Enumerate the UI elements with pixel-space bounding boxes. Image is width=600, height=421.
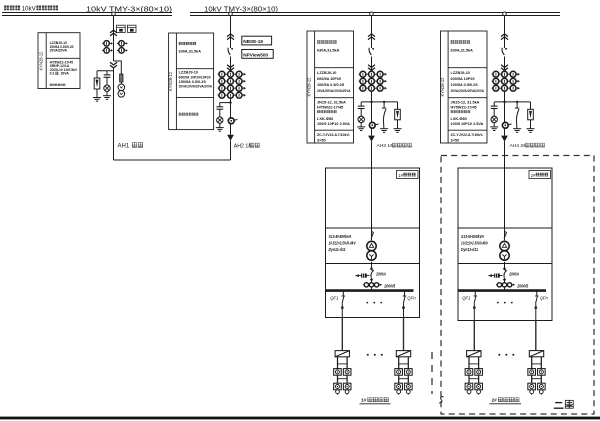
- svg-text:20VA/20VA/20VA/20VA: 20VA/20VA/20VA/20VA: [317, 89, 351, 93]
- svg-text:100/5 10P10 2.5VA: 100/5 10P10 2.5VA: [451, 122, 484, 126]
- svg-text:KYN28-12: KYN28-12: [38, 51, 43, 71]
- svg-text:10.5±2×2.5%/0.4kV: 10.5±2×2.5%/0.4kV: [329, 241, 357, 246]
- svg-text:AH2 1#: AH2 1#: [234, 144, 251, 150]
- svg-text:HY5WZ2-17/45: HY5WZ2-17/45: [317, 106, 343, 110]
- svg-text:10kV TMY-3×(80×10): 10kV TMY-3×(80×10): [204, 4, 278, 13]
- svg-text:LXK-Φ80: LXK-Φ80: [451, 117, 467, 121]
- svg-text:100/5 10P10 2.5VA: 100/5 10P10 2.5VA: [317, 122, 350, 126]
- svg-text:KYN28-12: KYN28-12: [168, 71, 173, 91]
- svg-text:Dyn11-d11: Dyn11-d11: [461, 247, 479, 252]
- svg-text:2000/5: 2000/5: [383, 283, 395, 288]
- svg-text:20VA/20VA: 20VA/20VA: [50, 49, 68, 53]
- svg-text:2#: 2#: [492, 398, 498, 404]
- svg-text:ZC-YJV22-8.7/10kV-: ZC-YJV22-8.7/10kV-: [451, 133, 485, 137]
- svg-text:0.2: 0.2: [50, 72, 55, 76]
- svg-text:NBSE-15: NBSE-15: [243, 39, 263, 44]
- svg-text:10kV TMY-3×(80×10): 10kV TMY-3×(80×10): [86, 4, 173, 13]
- svg-text:JN15-12, 31.5kA: JN15-12, 31.5kA: [317, 100, 346, 104]
- svg-text:S13-M-800kVA: S13-M-800kVA: [329, 234, 352, 239]
- svg-text:20VA/20VA/20VA/20VA: 20VA/20VA/20VA/20VA: [179, 85, 213, 89]
- svg-text:630A,31.5kA: 630A,31.5kA: [317, 49, 340, 53]
- svg-text:1#: 1#: [361, 398, 367, 404]
- svg-text:30VA: 30VA: [61, 72, 70, 76]
- svg-text:600/5A 10P20: 600/5A 10P20: [317, 77, 341, 81]
- svg-text:Dyn11-d11: Dyn11-d11: [329, 247, 347, 252]
- svg-text:630A,31.5kA: 630A,31.5kA: [179, 49, 202, 53]
- svg-text:600/5A 10P20/10P20: 600/5A 10P20/10P20: [179, 75, 211, 79]
- svg-text:LXK-Φ80: LXK-Φ80: [317, 117, 333, 121]
- svg-text:10kV: 10kV: [22, 6, 37, 13]
- svg-text:LZZBJ9-10: LZZBJ9-10: [451, 71, 470, 75]
- svg-text:100/5A 0.5/0.2S: 100/5A 0.5/0.2S: [451, 83, 479, 87]
- svg-text:S13-M-800kVA: S13-M-800kVA: [461, 234, 484, 239]
- svg-text:QF1: QF1: [462, 295, 471, 300]
- svg-text:LZZBJ9-10: LZZBJ9-10: [317, 71, 336, 75]
- svg-text:LZZBJ9-10: LZZBJ9-10: [179, 71, 198, 75]
- svg-text:630A,31.5kA: 630A,31.5kA: [451, 49, 474, 53]
- svg-text:3×50: 3×50: [317, 138, 326, 142]
- svg-text:2000A: 2000A: [508, 271, 519, 276]
- svg-text:AH4 2#: AH4 2#: [510, 143, 527, 149]
- svg-text:10.5±2×2.5%/0.4kV: 10.5±2×2.5%/0.4kV: [461, 241, 489, 246]
- svg-text:3×50: 3×50: [451, 138, 460, 142]
- svg-text:HY5WZ2-17/45: HY5WZ2-17/45: [451, 106, 477, 110]
- svg-text:KYN28-12: KYN28-12: [440, 77, 445, 97]
- svg-text:NPView500: NPView500: [243, 52, 268, 57]
- svg-text:QF1: QF1: [330, 295, 339, 300]
- svg-text:2000/5: 2000/5: [516, 283, 528, 288]
- svg-text:2#: 2#: [531, 173, 536, 178]
- svg-text:2000A: 2000A: [375, 271, 386, 276]
- svg-text:AH1: AH1: [118, 144, 130, 150]
- svg-text:600/5A 10P20: 600/5A 10P20: [451, 77, 475, 81]
- svg-text:150/5A 0.5/0.2S: 150/5A 0.5/0.2S: [179, 80, 207, 84]
- svg-text:KYN28-12: KYN28-12: [307, 77, 312, 97]
- svg-text:1#: 1#: [398, 173, 403, 178]
- svg-text:QFn: QFn: [540, 295, 549, 300]
- svg-text:ZC-YJV22-8.7/10kV-: ZC-YJV22-8.7/10kV-: [317, 133, 351, 137]
- svg-text:JN15-12, 31.5kA: JN15-12, 31.5kA: [451, 100, 480, 104]
- svg-text:QFn: QFn: [407, 295, 416, 300]
- svg-text:20VA/20VA/20VA/20VA: 20VA/20VA/20VA/20VA: [451, 89, 485, 93]
- svg-text:AH3 1#: AH3 1#: [377, 143, 394, 149]
- svg-text:100/5A 0.5/0.2S: 100/5A 0.5/0.2S: [317, 83, 345, 87]
